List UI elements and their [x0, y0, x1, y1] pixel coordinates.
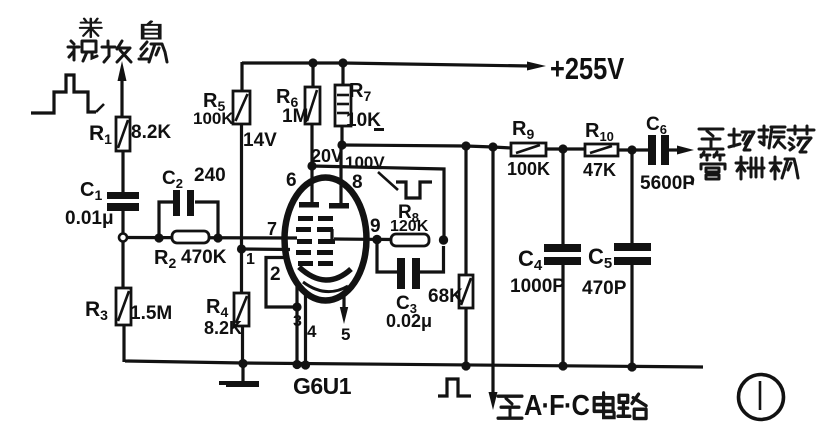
wire AFC output: [491, 147, 494, 398]
svg-text:G6U1: G6U1: [293, 373, 352, 399]
wire R7 to pin 8 anode: [340, 126, 343, 145]
grid dashes row2: [296, 227, 333, 232]
wire R5 branch from bus: [240, 62, 243, 93]
resistor R8: [391, 234, 429, 246]
node text zhi (to) right: [699, 129, 723, 149]
svg-text:100K: 100K: [507, 159, 550, 179]
wire C6 output: [669, 148, 681, 151]
wire bottom ground bus: [125, 361, 703, 367]
capacitor C6: [648, 135, 669, 165]
heater arc: [303, 282, 348, 292]
node text guan (tube): [701, 152, 725, 179]
svg-text:470K: 470K: [181, 247, 227, 268]
svg-text:4: 4: [307, 322, 317, 341]
node text zhi (to) bottom: [498, 396, 522, 418]
node junction 20V point: [307, 161, 316, 170]
wire pin4 to bus: [304, 293, 307, 365]
capacitor C3: [397, 258, 420, 289]
wire R1 to C1: [121, 151, 124, 193]
node junction C5 top: [627, 145, 636, 154]
anode plate pin6: [299, 202, 319, 208]
svg-text:1000P: 1000P: [510, 276, 565, 297]
svg-text:120K: 120K: [390, 218, 429, 235]
node pulse waveform anode: [396, 182, 432, 198]
node junction ground tap: [238, 359, 247, 368]
wire input arrow shaft: [120, 78, 123, 117]
svg-text:+255V: +255V: [550, 52, 624, 87]
wire C2 loop: [159, 202, 173, 238]
svg-text:7: 7: [267, 219, 277, 239]
node junction C4 bottom: [558, 361, 567, 370]
node output arrowhead: [677, 146, 694, 155]
node junction AFC top: [488, 142, 497, 151]
resistor R3: [116, 288, 131, 325]
node junction C5 bottom: [627, 362, 636, 371]
node junction R7 top: [338, 58, 347, 67]
svg-text:9: 9: [370, 216, 381, 237]
node text dang (oscill-2): [788, 126, 814, 152]
node text chang (field): [729, 129, 754, 150]
wire 100V pointer: [378, 172, 398, 190]
node text ji2 (grid-2): [770, 157, 798, 179]
node junction 68K top: [461, 141, 470, 150]
node top bus arrowhead: [527, 62, 546, 71]
svg-text:0.01μ: 0.01μ: [65, 208, 114, 229]
resistor R9: [511, 143, 546, 156]
wire C1 to grid node: [121, 211, 124, 233]
wire grid line to tube pin7: [127, 236, 297, 240]
capacitor C5: [614, 243, 651, 265]
svg-text:2: 2: [270, 264, 281, 285]
svg-text:8: 8: [352, 172, 363, 193]
node text ji (stage): [139, 42, 167, 62]
svg-text:240: 240: [194, 165, 226, 186]
svg-text:8.2K: 8.2K: [131, 122, 171, 143]
node junction pin2-pin3: [292, 302, 301, 311]
node junction C2 right: [213, 233, 222, 242]
wire pin2 hook: [266, 258, 297, 308]
node text shi (video): [68, 41, 97, 61]
grid dashes row5: [298, 261, 333, 266]
node grid input circle: [119, 234, 127, 242]
wire C5 to bus: [630, 265, 633, 367]
wire pin1: [242, 247, 291, 251]
node input arrowhead up: [118, 61, 127, 81]
node text lai (come): [80, 19, 102, 37]
node +255V label: [550, 52, 624, 87]
resistor R6: [305, 87, 320, 124]
wire R4 to ground bus: [241, 326, 244, 365]
svg-text:5: 5: [341, 325, 350, 344]
resistor R7: [335, 85, 351, 126]
svg-text:68K: 68K: [428, 286, 463, 307]
node input staircase waveform: [31, 75, 96, 113]
node AFC arrowhead: [489, 392, 498, 410]
node pin5 arrowhead: [340, 307, 348, 324]
node pulse waveform AFC: [438, 379, 471, 396]
node junction pin3 bus: [292, 360, 301, 369]
grid dashes row4: [296, 250, 333, 255]
svg-text:1.5M: 1.5M: [130, 303, 172, 324]
wire pin3 cathode to bus: [295, 280, 298, 365]
wire C4 branch: [561, 149, 564, 246]
node stray mark: [374, 128, 384, 131]
wire +255V top bus: [242, 63, 530, 66]
node junction anode 8: [337, 140, 346, 149]
node junction C2 left: [154, 233, 163, 242]
svg-text:10K: 10K: [346, 110, 381, 131]
wire R7 branch: [341, 63, 344, 86]
wire anode line to R9: [342, 145, 511, 148]
ground symbol: [219, 364, 259, 387]
node junction R6 top: [308, 58, 317, 67]
svg-text:8.2K: 8.2K: [204, 318, 242, 338]
node circled 1 mark: [739, 375, 784, 420]
capacitor C4: [544, 244, 581, 265]
wire R10 to C6: [618, 148, 648, 151]
wire C5 branch: [630, 150, 633, 245]
node text lu (circuit): [618, 394, 646, 418]
grid dashes row1: [298, 216, 333, 221]
svg-text:100K: 100K: [193, 109, 234, 128]
node junction pin1: [237, 244, 246, 253]
wire grid node to R3: [121, 241, 124, 288]
svg-text:470P: 470P: [582, 278, 627, 299]
wire R5 to R4 vertical (pin1 node): [240, 124, 243, 293]
capacitor C1: [107, 192, 139, 211]
node text shan (grid-1): [736, 157, 764, 179]
anode plate pin8: [329, 203, 349, 209]
svg-text:0.02μ: 0.02μ: [386, 311, 432, 331]
tube G6U1 envelope: [285, 178, 367, 301]
node text zhen (oscill-1): [759, 126, 785, 148]
svg-text:100V: 100V: [345, 153, 385, 172]
svg-text:5600P: 5600P: [640, 173, 695, 194]
wire R6 branch: [311, 63, 314, 88]
wire R8 feed from pin6 node: [312, 166, 444, 240]
node AFC label A-F-C: [524, 388, 589, 421]
resistor 68K vertical: [459, 146, 473, 366]
resistor R10: [585, 144, 618, 156]
svg-text:47K: 47K: [583, 160, 616, 180]
grid dashes row3: [297, 239, 335, 244]
svg-text:A·F·C: A·F·C: [524, 388, 589, 421]
wire R9 to R10: [546, 147, 585, 150]
node text dian (electric): [594, 393, 614, 417]
wire pin9 to R8: [334, 237, 391, 241]
cathode arc: [299, 267, 351, 280]
node junction pin4 bus: [301, 360, 310, 369]
resistor R5: [233, 91, 250, 124]
wire R6 to tube pin 6 anode: [310, 124, 313, 204]
resistor R2: [172, 231, 209, 243]
resistor R4: [234, 293, 249, 326]
wire pin8 lead down: [339, 145, 342, 205]
svg-text:20V: 20V: [311, 146, 343, 166]
node junction pin9: [372, 235, 381, 244]
grid connector 5shape: [330, 229, 333, 241]
svg-text:6: 6: [286, 170, 297, 191]
node junction C4 top: [558, 144, 567, 153]
node stray comma mark: [690, 176, 693, 185]
capacitor C2: [173, 190, 194, 216]
wire C3 loop: [377, 240, 397, 273]
node text fang (amplify): [102, 41, 131, 62]
svg-text:1: 1: [246, 251, 255, 268]
wire C4 to bus: [561, 265, 564, 367]
wire pin5 heater: [342, 292, 345, 313]
resistor R1: [116, 117, 130, 151]
node text zi (from): [143, 22, 160, 39]
node junction R8 right: [439, 235, 448, 244]
wire R3 to bus: [122, 325, 125, 362]
svg-text:14V: 14V: [243, 130, 277, 151]
svg-text:1M: 1M: [282, 106, 308, 127]
node junction 68K bottom: [461, 361, 470, 370]
